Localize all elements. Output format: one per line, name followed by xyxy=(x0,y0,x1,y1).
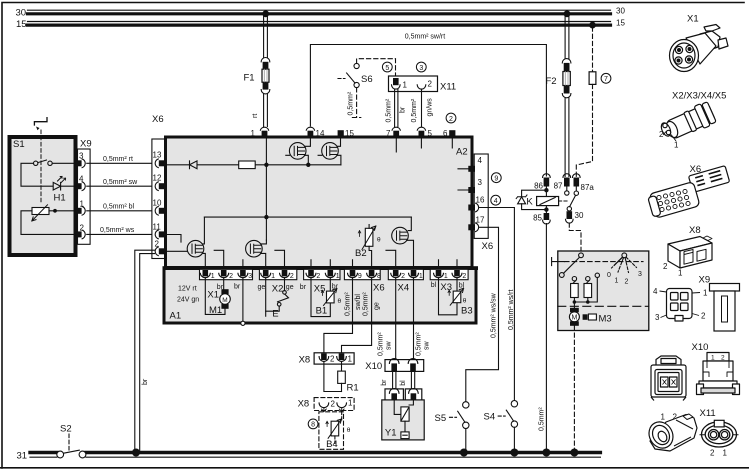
svg-text:X6: X6 xyxy=(152,114,164,125)
relay K xyxy=(516,174,581,451)
ground bus 31 xyxy=(30,434,600,458)
svg-text:30: 30 xyxy=(616,7,625,16)
svg-text:1: 1 xyxy=(723,449,728,458)
X9 pin 3 xyxy=(76,159,86,168)
svg-text:2: 2 xyxy=(721,355,725,362)
connector X6 strip right xyxy=(474,154,488,238)
ground nodes xyxy=(132,449,140,457)
X6R pin 3 xyxy=(468,187,475,193)
svg-text:3: 3 xyxy=(638,271,642,278)
node bus15 dashed tap xyxy=(589,22,596,29)
X11 pin 1 xyxy=(393,78,399,85)
blower unit M3 xyxy=(552,251,649,450)
svg-text:1: 1 xyxy=(403,81,408,90)
svg-text:9: 9 xyxy=(494,176,498,183)
svg-text:1: 1 xyxy=(661,413,666,422)
svg-text:3: 3 xyxy=(248,273,252,280)
terminal 86 xyxy=(543,174,551,197)
sensor B4 (dashed option) xyxy=(319,412,344,450)
svg-text:2: 2 xyxy=(331,399,336,408)
svg-text:3: 3 xyxy=(478,178,483,187)
svg-text:ge: ge xyxy=(258,284,266,291)
svg-text:0: 0 xyxy=(607,272,611,279)
LED H1 xyxy=(53,182,60,190)
svg-text:13: 13 xyxy=(153,151,162,160)
A2 top pins xyxy=(260,127,455,137)
strip X5 xyxy=(304,269,340,279)
X11 pin 2 xyxy=(417,85,426,89)
svg-text:M: M xyxy=(222,297,227,304)
resistor contacts xyxy=(572,277,576,281)
svg-text:Y1: Y1 xyxy=(385,428,397,439)
gate stub 1 xyxy=(214,250,224,266)
wires X6 pin11/pin2 looping down to ground bus xyxy=(135,250,155,450)
svg-text:X6: X6 xyxy=(482,241,494,252)
svg-text:θ: θ xyxy=(463,298,467,305)
svg-text:0,5mm²: 0,5mm² xyxy=(415,332,422,356)
svg-text:0,5mm² ws/sw: 0,5mm² ws/sw xyxy=(491,292,498,338)
svg-text:3: 3 xyxy=(419,65,423,72)
svg-text:br: br xyxy=(234,283,241,290)
sensor B3 xyxy=(439,278,464,315)
pin X4-2 xyxy=(391,270,401,278)
pin X2-1 xyxy=(261,270,271,278)
wire bus30 to F2 (double line) xyxy=(565,15,569,59)
sensor B2 xyxy=(358,225,376,267)
svg-text:11: 11 xyxy=(153,223,162,232)
wire F1 to A2 pin1 (double line) xyxy=(264,94,268,127)
wires X4 to X10 xyxy=(395,278,397,360)
svg-text:2: 2 xyxy=(330,355,335,364)
svg-text:F2: F2 xyxy=(546,76,557,87)
wire X1-3 ground through A1 xyxy=(241,278,245,326)
lever xyxy=(552,258,565,266)
X9 pin 1 xyxy=(76,206,86,215)
svg-text:86: 86 xyxy=(534,182,543,191)
circled 4 xyxy=(491,195,501,205)
node xyxy=(306,163,310,167)
svg-text:1: 1 xyxy=(271,273,275,280)
svg-text:sw: sw xyxy=(424,341,431,351)
svg-text:sw/bl: sw/bl xyxy=(355,294,362,310)
svg-text:θ: θ xyxy=(347,427,351,434)
A2 internal circuit xyxy=(166,138,469,267)
circled 3 xyxy=(416,62,426,72)
strip X2 xyxy=(259,269,296,279)
node xyxy=(264,163,268,167)
svg-text:θ: θ xyxy=(338,298,342,305)
svg-text:3: 3 xyxy=(655,313,660,322)
svg-text:0,5mm² ws: 0,5mm² ws xyxy=(100,227,135,234)
svg-text:0,5mm²: 0,5mm² xyxy=(348,91,355,115)
transistor T5 xyxy=(392,227,414,266)
wire X9-3 to X6-13 xyxy=(86,162,151,164)
pin X1-1 xyxy=(200,270,210,278)
svg-text:2: 2 xyxy=(155,239,160,248)
wire xyxy=(21,163,53,186)
svg-text:1: 1 xyxy=(348,354,353,363)
control unit A2 xyxy=(166,137,473,268)
control unit S1 xyxy=(10,118,76,255)
svg-text:0,5mm² rt: 0,5mm² rt xyxy=(103,156,133,163)
svg-text:1: 1 xyxy=(419,273,423,280)
svg-text:B4: B4 xyxy=(326,439,338,450)
svg-text:X9: X9 xyxy=(699,275,711,286)
resistor R (A2) xyxy=(239,161,256,169)
divider xyxy=(558,305,649,307)
svg-text:2: 2 xyxy=(229,273,233,280)
wire X9-1 to X6-10 xyxy=(86,210,151,212)
svg-text:X2: X2 xyxy=(272,283,284,294)
svg-text:0,5mm² ws/rt: 0,5mm² ws/rt xyxy=(508,290,515,331)
fuse F2 xyxy=(562,59,571,98)
svg-text:2: 2 xyxy=(625,279,629,286)
svg-text:12V rt: 12V rt xyxy=(178,286,197,293)
pin X6-9 xyxy=(348,270,358,278)
svg-text:7: 7 xyxy=(604,76,608,83)
X6R pin 4 xyxy=(468,166,475,172)
connector X8 xyxy=(314,353,354,364)
circled 5 xyxy=(382,62,392,72)
X6 pin 2 xyxy=(155,247,165,256)
svg-text:X8: X8 xyxy=(299,355,311,366)
svg-text:1: 1 xyxy=(80,199,85,208)
svg-text:br: br xyxy=(300,284,307,291)
connector X9 strip xyxy=(78,149,91,244)
stubs to lower pins xyxy=(242,260,244,267)
svg-text:5: 5 xyxy=(428,129,433,138)
wire dashed bus15 to circuit 7 element xyxy=(592,27,594,72)
motor M1 xyxy=(205,278,230,315)
pin X2-2 xyxy=(280,270,290,278)
svg-text:0,5mm²: 0,5mm² xyxy=(539,407,546,431)
svg-text:2: 2 xyxy=(428,80,433,89)
svg-text:sw: sw xyxy=(386,341,393,351)
connector X10 xyxy=(385,359,424,372)
wires xyxy=(574,278,597,309)
strip X6 xyxy=(344,269,380,279)
svg-text:rt: rt xyxy=(252,114,259,118)
suppressor diode xyxy=(516,190,546,209)
svg-text:S6: S6 xyxy=(361,74,373,85)
X6 pin 13 xyxy=(155,159,165,168)
svg-text:17: 17 xyxy=(476,215,485,224)
svg-text:R1: R1 xyxy=(347,383,359,394)
pin X5-2 xyxy=(306,270,316,278)
A2 pin 15 xyxy=(338,130,344,137)
wire X9-2 to X6-11 xyxy=(86,233,151,235)
svg-text:1: 1 xyxy=(674,141,679,150)
svg-text:6: 6 xyxy=(443,129,448,138)
svg-text:gn/ws: gn/ws xyxy=(427,98,434,117)
transistor T1 xyxy=(286,138,311,165)
main switch contact xyxy=(579,253,584,258)
svg-text:10: 10 xyxy=(153,198,162,207)
svg-text:1: 1 xyxy=(678,269,683,278)
svg-text:9: 9 xyxy=(358,273,362,280)
X9 pin 4 xyxy=(76,182,86,191)
X6 pin 11 xyxy=(155,230,165,239)
wire A2 pin17 to S5 branch xyxy=(466,227,499,401)
svg-text:B2: B2 xyxy=(355,248,367,259)
svg-text:4: 4 xyxy=(494,198,498,205)
pin X4-1 xyxy=(409,270,419,278)
resistor R2 xyxy=(571,284,579,298)
svg-text:12: 12 xyxy=(153,174,162,183)
wire A2 pin14 up over to relay 86 xyxy=(310,45,546,177)
terminal 30 xyxy=(566,207,574,224)
svg-text:E: E xyxy=(272,309,278,320)
circled 7 xyxy=(601,73,611,83)
pin X1-3 xyxy=(238,270,248,278)
X6R pin 17 xyxy=(468,223,478,232)
svg-text:ge: ge xyxy=(373,302,380,310)
svg-text:1: 1 xyxy=(348,398,353,407)
pin11 stub xyxy=(166,235,182,243)
wire dashed 30 to M3 xyxy=(569,223,581,253)
svg-text:X10: X10 xyxy=(692,342,709,353)
bus 30 xyxy=(28,10,611,14)
fuse holder element (7) xyxy=(589,72,596,85)
svg-text:S1: S1 xyxy=(13,139,25,150)
svg-text:15: 15 xyxy=(16,19,27,30)
A1 connector strips xyxy=(200,269,469,279)
svg-text:7: 7 xyxy=(386,129,391,138)
svg-text:2: 2 xyxy=(659,130,664,139)
A2 pin 14 xyxy=(306,127,315,137)
A2 pin 7 xyxy=(392,127,401,137)
A2 pin 1 xyxy=(260,127,269,137)
potentiometer in S1 xyxy=(32,208,49,215)
svg-text:0,5mm²: 0,5mm² xyxy=(377,332,384,356)
control unit A1 xyxy=(164,269,476,324)
pin X6-8 xyxy=(367,270,377,278)
svg-text:F1: F1 xyxy=(244,73,255,84)
svg-text:1: 1 xyxy=(211,273,215,280)
svg-text:X3: X3 xyxy=(440,282,452,293)
circled 2 xyxy=(446,113,456,123)
svg-text:X1: X1 xyxy=(207,289,219,300)
svg-text:X11: X11 xyxy=(440,82,456,93)
svg-text:15: 15 xyxy=(616,19,625,28)
gate stub 3 xyxy=(386,250,396,266)
svg-text:B1: B1 xyxy=(316,305,328,316)
strip X4 xyxy=(388,269,423,279)
svg-text:2: 2 xyxy=(290,273,294,280)
svg-text:br: br xyxy=(400,106,407,113)
svg-text:1: 1 xyxy=(444,273,448,280)
shared boundary A2/A1 xyxy=(163,266,479,270)
svg-text:X11: X11 xyxy=(700,408,716,419)
diode D1 xyxy=(190,161,198,169)
relay coil K xyxy=(537,197,559,214)
strip X1 xyxy=(200,269,253,279)
svg-text:M3: M3 xyxy=(599,314,612,325)
terminal 87 xyxy=(563,174,571,195)
svg-text:16: 16 xyxy=(476,196,485,205)
svg-text:30: 30 xyxy=(575,211,584,220)
svg-text:0,5mm²: 0,5mm² xyxy=(344,292,351,316)
svg-text:br: br xyxy=(381,379,388,386)
svg-text:X8: X8 xyxy=(298,399,310,410)
svg-text:X1: X1 xyxy=(687,14,699,25)
svg-text:2: 2 xyxy=(462,273,466,280)
connector X11 xyxy=(389,76,438,92)
svg-text:A1: A1 xyxy=(170,311,182,322)
X6R pin 16 xyxy=(468,203,478,212)
svg-text:2: 2 xyxy=(663,262,668,271)
svg-text:S5: S5 xyxy=(435,413,447,424)
svg-text:30: 30 xyxy=(16,8,27,19)
svg-text:S4: S4 xyxy=(484,412,496,423)
svg-text:2: 2 xyxy=(710,449,715,458)
wire pin13 rail xyxy=(166,164,341,166)
svg-text:0,5mm² bl: 0,5mm² bl xyxy=(103,204,135,211)
svg-text:X9: X9 xyxy=(80,139,92,150)
relay contact arm xyxy=(570,195,576,206)
svg-text:14: 14 xyxy=(316,129,325,138)
wire X6-9 to X8 xyxy=(324,278,414,360)
transistor T4 xyxy=(246,240,267,266)
remote sensor symbol xyxy=(34,118,47,125)
svg-text:1: 1 xyxy=(251,129,256,138)
wire X11 pin2 to A2 pin5 xyxy=(421,89,423,126)
circled 8 xyxy=(308,419,318,429)
svg-text:ge: ge xyxy=(286,284,294,291)
sensor B1 xyxy=(311,278,337,317)
gate stub 2 xyxy=(275,250,285,266)
svg-text:1: 1 xyxy=(711,355,715,362)
A2 pin 6 xyxy=(449,130,455,137)
svg-text:4: 4 xyxy=(79,175,84,184)
svg-text:A2: A2 xyxy=(456,147,468,158)
svg-text:87a: 87a xyxy=(581,183,595,192)
bus 15 xyxy=(28,22,611,26)
svg-text:bl: bl xyxy=(431,282,437,289)
wire dashed element7 to relay 87a xyxy=(576,84,592,176)
svg-text:1: 1 xyxy=(615,278,619,285)
connector X8 spare (dashed) xyxy=(314,398,354,412)
motor M3 xyxy=(569,308,579,326)
svg-text:0,5mm² sw: 0,5mm² sw xyxy=(103,179,138,186)
connector X6 strip left xyxy=(152,139,166,259)
switch S2 xyxy=(57,451,64,458)
node xyxy=(264,215,268,219)
svg-text:1: 1 xyxy=(336,273,340,280)
svg-text:bl: bl xyxy=(400,380,407,386)
pin X3-1 xyxy=(434,270,444,278)
stubs right pins 4 3 xyxy=(458,169,468,190)
valve unit Y1 xyxy=(382,388,424,439)
resistor R3 xyxy=(584,284,592,298)
svg-text:15: 15 xyxy=(345,129,354,138)
circled 9 xyxy=(491,173,501,183)
svg-text:X2/X3/X4/X5: X2/X3/X4/X5 xyxy=(672,91,726,102)
wire dashed S6 bottom open end xyxy=(352,88,360,118)
svg-text:8: 8 xyxy=(311,422,315,429)
svg-text:2: 2 xyxy=(316,273,320,280)
svg-text:3: 3 xyxy=(79,152,84,161)
switch in S1 xyxy=(34,161,38,165)
X6 pin 10 xyxy=(155,206,165,215)
wire bus30 to F1 (double line) xyxy=(264,15,268,58)
switch S5 xyxy=(450,402,469,451)
svg-text:85: 85 xyxy=(533,214,542,223)
svg-text:4: 4 xyxy=(653,287,658,296)
svg-text:5: 5 xyxy=(385,65,389,72)
svg-text:K: K xyxy=(526,197,533,208)
wire X9-4 to X6-12 xyxy=(86,185,151,187)
svg-text:S2: S2 xyxy=(60,423,72,434)
strip X3 xyxy=(430,269,468,279)
wire dashed S6 top to X11 pin1 xyxy=(357,59,396,78)
svg-text:1: 1 xyxy=(703,289,708,298)
transistor T2 xyxy=(318,138,341,165)
fuse F1 xyxy=(261,58,270,94)
node bus30/F2 xyxy=(564,10,571,17)
svg-text:31: 31 xyxy=(17,450,28,461)
stubs top pins 7 5 6 xyxy=(396,138,452,153)
svg-text:87: 87 xyxy=(554,182,563,191)
svg-text:2: 2 xyxy=(401,273,405,280)
svg-text:0,5mm² sw/rt: 0,5mm² sw/rt xyxy=(405,34,446,41)
svg-text:X10: X10 xyxy=(365,361,382,372)
svg-text:θ: θ xyxy=(377,237,381,244)
wire dashed M3 to ground xyxy=(573,326,575,451)
svg-text:M1: M1 xyxy=(209,305,222,316)
wire pin1 vertical xyxy=(265,138,267,241)
transistor T3 xyxy=(166,240,206,266)
svg-text:M: M xyxy=(571,315,577,322)
svg-text:0,5mm²: 0,5mm² xyxy=(386,98,393,122)
svg-text:br: br xyxy=(142,378,149,385)
wire X11 pin1 to A2 pin7 (double) xyxy=(395,89,398,126)
door contact E xyxy=(266,278,289,317)
A2 pin 5 xyxy=(417,127,426,137)
resistor R1 xyxy=(324,362,345,392)
switch S4 xyxy=(498,401,517,451)
node bus30/F1 xyxy=(262,10,269,17)
terminal 87a xyxy=(573,174,581,196)
pin X5-1 xyxy=(325,270,335,278)
wire F2 to relay 87 (double line) xyxy=(565,98,569,177)
svg-text:2: 2 xyxy=(80,224,85,233)
svg-text:4: 4 xyxy=(478,156,483,165)
wire X6-8 to X8 pin1 xyxy=(342,278,372,353)
pin X3-2 xyxy=(452,270,462,278)
svg-text:8: 8 xyxy=(377,273,381,280)
pin X1-2 xyxy=(219,270,229,278)
X6 pin 12 xyxy=(155,182,165,191)
wire A2 pin16 to S4 branch xyxy=(480,208,515,401)
terminal 85 xyxy=(543,213,551,450)
wire mid rail xyxy=(204,216,411,218)
svg-text:X4: X4 xyxy=(398,282,410,293)
svg-text:0,5mm²: 0,5mm² xyxy=(411,98,418,122)
switch S6 xyxy=(338,63,359,87)
fan selector xyxy=(622,253,627,258)
svg-text:X8: X8 xyxy=(689,225,701,236)
svg-text:2: 2 xyxy=(449,116,453,123)
svg-text:0,5mm²: 0,5mm² xyxy=(363,292,370,316)
svg-text:H1: H1 xyxy=(54,193,66,204)
svg-text:2: 2 xyxy=(701,312,706,321)
svg-text:B3: B3 xyxy=(461,305,473,316)
svg-text:24V gn: 24V gn xyxy=(177,296,199,303)
X9 pin 2 xyxy=(76,230,86,239)
svg-text:X6: X6 xyxy=(373,282,385,293)
wires X10 to Y1 (double) xyxy=(393,371,415,389)
